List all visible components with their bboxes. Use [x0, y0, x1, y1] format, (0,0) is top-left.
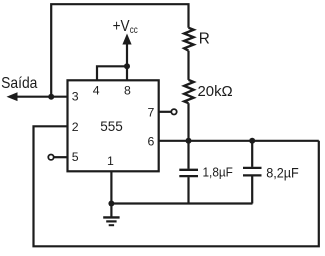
svg-text:R: R: [199, 31, 210, 48]
wire R bottom to 20k top: [187, 51, 189, 80]
wire ground node to capacitor bottoms: [111, 202, 252, 204]
svg-text:cc: cc: [130, 24, 138, 36]
wire pin1 down to ground node: [110, 171, 112, 203]
node: junction dot at pin3/Saida: [48, 94, 54, 100]
arrowhead +Vcc: [122, 34, 131, 45]
svg-text:4: 4: [93, 84, 100, 98]
svg-text:8: 8: [124, 84, 131, 98]
wire Vcc arrow shaft: [126, 41, 128, 66]
wire output loop: pin3 junction up, across top, down to R: [51, 4, 188, 97]
resistor 20k: [184, 80, 193, 103]
node: junction dot ground: [108, 201, 114, 207]
svg-text:5: 5: [72, 150, 79, 164]
svg-text:Saída: Saída: [1, 75, 37, 92]
wire pin5 stub: [54, 156, 68, 158]
capacitor C1 plates (1,8uF): [179, 170, 198, 176]
op: 555 IC body U1: [68, 80, 159, 171]
arrowhead Saida output: [7, 92, 18, 101]
svg-text:555: 555: [100, 119, 123, 135]
svg-text:3: 3: [72, 90, 79, 104]
ground: [103, 217, 119, 225]
svg-text:20kΩ: 20kΩ: [198, 84, 233, 100]
capacitor C1 leads: [187, 141, 189, 169]
capacitor C2 leads: [251, 141, 253, 167]
wire 20k bottom to pin6 node: [187, 103, 189, 141]
wire pin4-pin8 bracket with Vcc stub: [97, 66, 127, 80]
svg-text:6: 6: [148, 134, 155, 148]
svg-text:2: 2: [72, 120, 79, 134]
svg-text:+V: +V: [113, 18, 131, 35]
svg-text:1,8µF: 1,8µF: [203, 165, 233, 180]
node: junction dot 20k/C1 top: [186, 138, 192, 144]
node: junction dot C2 top: [249, 138, 255, 144]
node: junction dot at Vcc bracket: [124, 63, 130, 69]
wire ground stub: [110, 204, 112, 217]
wire pin7 stub: [159, 111, 172, 113]
svg-text:1: 1: [107, 154, 114, 168]
svg-text:7: 7: [148, 106, 155, 120]
wire feedback pin6 to pin2: right edge down, bottom, left up, into pin2: [34, 126, 319, 246]
terminal: open circle pin7: [171, 109, 176, 114]
wire pin6 to right edge: [159, 140, 319, 142]
svg-text:8,2µF: 8,2µF: [266, 165, 299, 180]
capacitor C2 plates (8,2uF): [243, 168, 262, 176]
terminal: open circle pin5: [48, 155, 53, 160]
resistor R: [184, 28, 193, 51]
wire Saida / pin3: [15, 96, 68, 98]
